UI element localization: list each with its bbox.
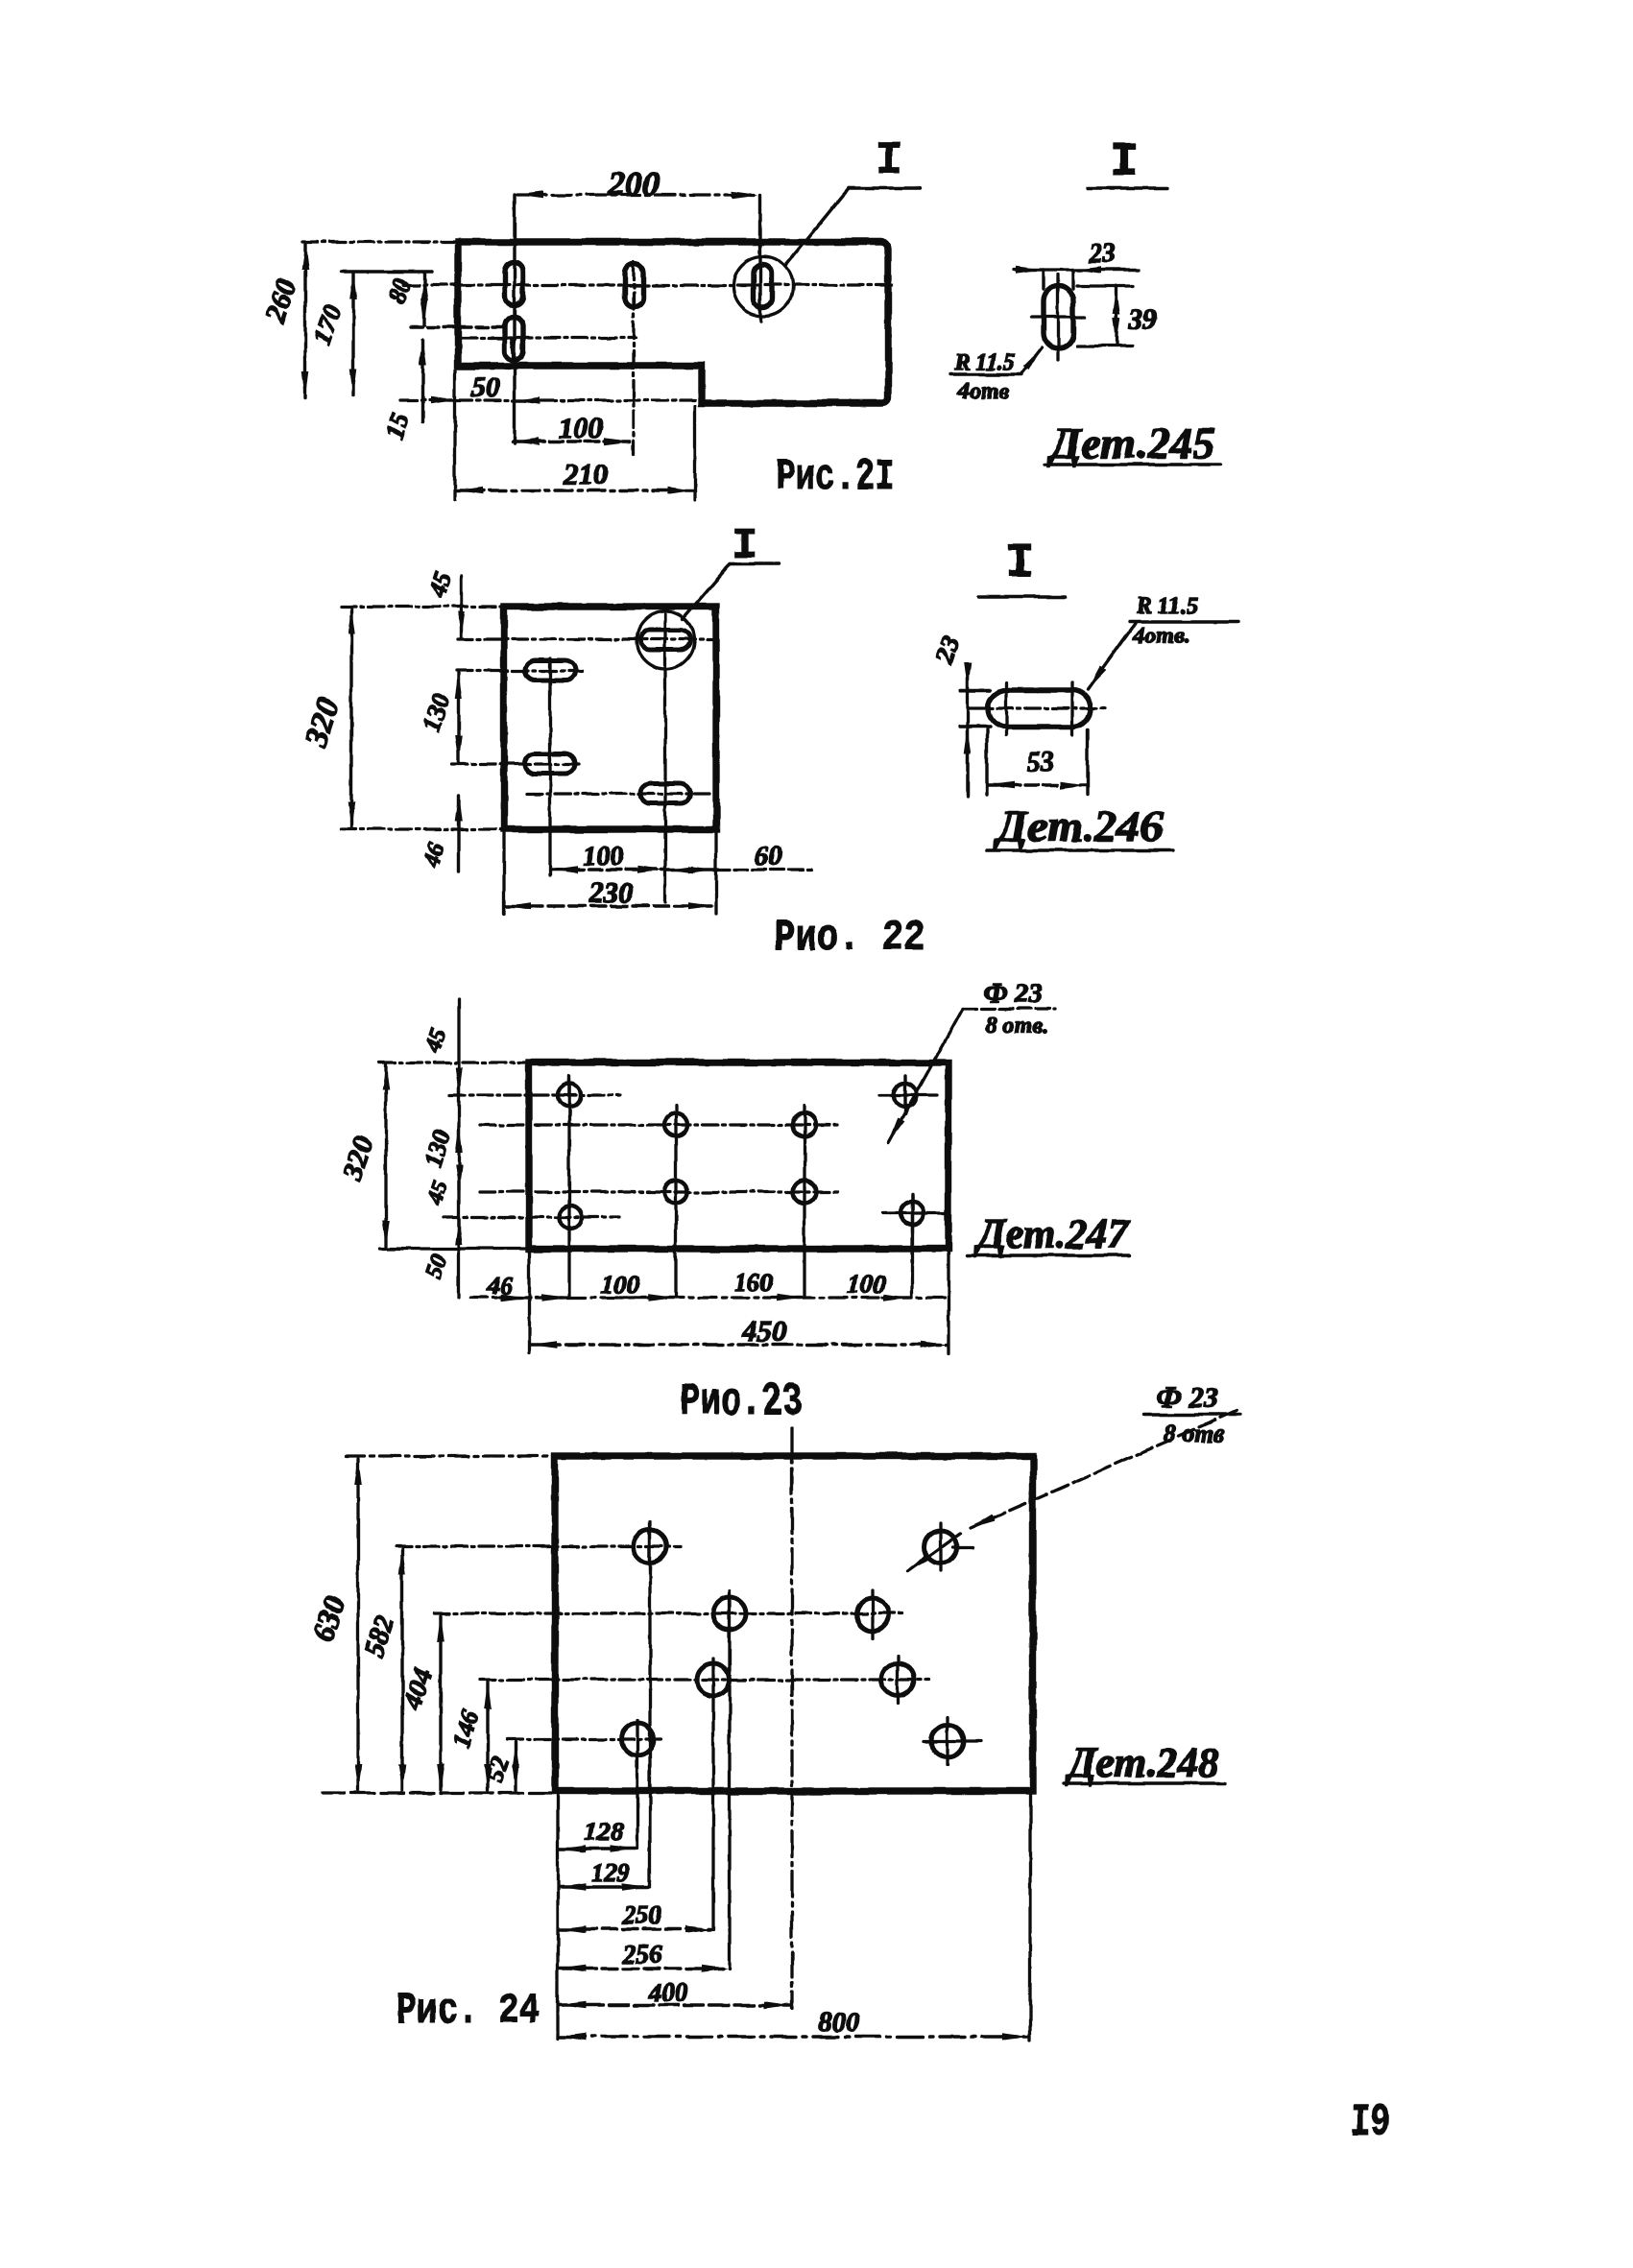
fig23 det underline <box>967 1253 1129 1256</box>
det245 ext 39 <box>1077 284 1133 287</box>
svg-text:160: 160 <box>734 1268 774 1297</box>
fig21 dim 80 <box>422 274 425 325</box>
svg-text:230: 230 <box>588 875 635 909</box>
svg-text:I: I <box>1005 537 1034 591</box>
svg-text:Дет.248: Дет.248 <box>1065 1739 1218 1786</box>
svg-text:45: 45 <box>420 1025 451 1056</box>
svg-text:256: 256 <box>622 1940 662 1969</box>
fig23 centerline cols <box>567 1080 570 1298</box>
svg-text:Рис. 24: Рис. 24 <box>396 1987 540 2036</box>
svg-text:I: I <box>732 522 757 570</box>
fig24 left baseline <box>322 1791 555 1794</box>
det245 dim 39 bracket <box>1115 288 1117 344</box>
fig21 centerline col2 <box>632 262 635 454</box>
fig22 dim 100 <box>552 868 663 871</box>
fig24 dim 250 <box>560 1927 711 1930</box>
svg-text:R 11.5: R 11.5 <box>1135 593 1198 619</box>
fig21 dim 170 <box>351 274 354 395</box>
fig21 plate outline <box>458 242 888 403</box>
det246 slot <box>988 690 1091 727</box>
svg-text:50: 50 <box>471 371 500 403</box>
det246 texts <box>929 537 1199 850</box>
det246 leader <box>1088 624 1135 689</box>
fig24 dim 146 <box>486 1683 489 1790</box>
fig24 ext top <box>346 1454 555 1457</box>
det246 underline <box>987 848 1173 851</box>
fig21 slot A3 circled <box>754 264 772 307</box>
fig23 ext top/bottom <box>379 1061 529 1063</box>
svg-text:4отв.: 4отв. <box>1132 624 1189 649</box>
fig24 dim 800 <box>560 2035 1028 2038</box>
fig24 F23 underline <box>1144 1413 1240 1416</box>
svg-text:129: 129 <box>591 1858 631 1887</box>
fig23 long left ext vertical <box>457 999 460 1299</box>
det245 dim 23 line <box>1014 268 1139 271</box>
svg-text:Рио.23: Рио.23 <box>680 1376 803 1428</box>
det245 leader R11.5 <box>1021 347 1042 373</box>
fig22 centerline row4 <box>527 792 712 795</box>
fig22 centerline row1 <box>457 637 712 640</box>
fig21 ext step down <box>693 406 696 500</box>
svg-text:45: 45 <box>422 1178 453 1208</box>
fig21 slot A4 lower <box>505 317 523 360</box>
fig23 dim 320 <box>384 1064 387 1247</box>
fig23 holes <box>558 1084 924 1229</box>
fig24 det underline <box>1064 1781 1225 1784</box>
fig23 dim 450 <box>531 1343 947 1346</box>
svg-text:210: 210 <box>564 459 608 490</box>
det245 underline <box>1045 463 1221 466</box>
fig22 leader to I <box>683 563 731 619</box>
svg-text:Ф 23: Ф 23 <box>984 978 1043 1009</box>
det246 slot centerlines <box>970 706 1108 709</box>
det245 slot side ext <box>1042 270 1045 289</box>
fig21 slot A2 <box>625 264 643 307</box>
fig24 hole vertical ticks <box>650 1522 948 1765</box>
svg-text:100: 100 <box>847 1270 886 1299</box>
det246 dim 23 <box>966 670 969 797</box>
fig22 dim 46 bottom <box>457 796 460 871</box>
fig24 dim 52 <box>514 1742 516 1790</box>
fig23 small arrows on ext line <box>457 1070 460 1093</box>
fig24 left ext vertical below <box>556 1793 559 2039</box>
svg-text:100: 100 <box>583 842 623 871</box>
svg-text:8 отв.: 8 отв. <box>986 1014 1048 1039</box>
fig24 right ext vertical below <box>1028 1793 1031 2041</box>
svg-text:8 отв: 8 отв <box>1164 1420 1226 1447</box>
fig22 slot B1 circled <box>640 630 690 650</box>
svg-text:Рис.2I: Рис.2I <box>776 453 895 502</box>
svg-text:4отв: 4отв <box>956 379 1009 404</box>
fig21 ext bottom <box>401 398 699 401</box>
svg-text:I9: I9 <box>1351 2098 1390 2149</box>
fig22 plate outline <box>504 607 716 829</box>
svg-text:23: 23 <box>929 633 965 668</box>
svg-text:Дет.246: Дет.246 <box>993 801 1163 850</box>
fig22 ext verticals bottom <box>502 831 505 914</box>
fig23 texts <box>336 978 1130 1428</box>
fig24 centerline rows <box>396 1544 681 1547</box>
svg-text:630: 630 <box>305 1592 351 1645</box>
fig21 dim 260 <box>303 244 306 398</box>
fig24 dim 582 <box>400 1549 403 1790</box>
fig22 ext top/bottom <box>341 605 504 608</box>
fig22 dim 45 top <box>459 576 462 637</box>
fig22 dim 130 <box>457 673 460 762</box>
det245 slot centerlines <box>1056 275 1059 361</box>
fig22 centerline colL <box>548 658 551 875</box>
fig24 main vertical centerline <box>790 1428 793 2008</box>
svg-text:45: 45 <box>424 569 457 601</box>
fig21 centerline col1 <box>513 195 516 443</box>
det246 ext 53 <box>985 729 988 795</box>
svg-text:Ф 23: Ф 23 <box>1156 1380 1218 1414</box>
fig21 ext y283 <box>342 270 432 273</box>
det246 R11.5 underline <box>1129 620 1238 623</box>
svg-text:50: 50 <box>420 1251 453 1282</box>
fig24 dim 404 <box>439 1616 442 1790</box>
fig23 ext for 450 <box>527 1251 530 1353</box>
svg-text:I: I <box>876 135 903 187</box>
fig24 dim 630 <box>356 1459 359 1790</box>
fig21 dim 50 arrows <box>434 398 456 401</box>
fig21 arrow on col1 to bottom edge <box>512 338 515 363</box>
svg-text:100: 100 <box>601 1270 640 1299</box>
det245 I mark <box>1088 186 1167 189</box>
fig21 centerline col3 <box>758 195 761 321</box>
det246 ext 23 <box>960 688 990 691</box>
svg-text:R 11.5: R 11.5 <box>954 350 1016 375</box>
svg-text:39: 39 <box>1127 303 1157 335</box>
svg-text:400: 400 <box>648 1978 688 2007</box>
fig22 dim 320 <box>349 609 352 827</box>
svg-text:80: 80 <box>382 275 417 308</box>
det246 I mark <box>979 595 1066 598</box>
svg-text:800: 800 <box>818 2007 860 2038</box>
svg-text:46: 46 <box>418 839 450 871</box>
fig21 ext top <box>302 240 458 243</box>
fig22 dim 230 <box>506 904 714 907</box>
svg-text:130: 130 <box>417 689 456 735</box>
svg-text:100: 100 <box>559 411 604 444</box>
svg-text:60: 60 <box>755 842 781 871</box>
det246 dim 53 <box>989 783 1086 786</box>
fig24 plate outline <box>555 1456 1033 1791</box>
fig24 leader F23 <box>970 1411 1237 1528</box>
fig21 dim 15 arrow <box>420 340 423 422</box>
svg-text:320: 320 <box>336 1134 380 1185</box>
fig21 dim 210 <box>457 489 693 491</box>
svg-text:130: 130 <box>419 1126 457 1170</box>
fig22 slot B3 <box>525 753 575 774</box>
fig22 texts <box>298 522 925 963</box>
fig24 dim 400 <box>560 2003 790 2006</box>
svg-text:320: 320 <box>298 694 347 752</box>
fig21 leader to I <box>785 188 849 266</box>
fig21 detail circle <box>733 256 793 316</box>
svg-text:170: 170 <box>307 301 347 347</box>
svg-text:53: 53 <box>1027 748 1054 777</box>
fig23 leader F23 <box>889 1009 963 1142</box>
svg-text:52: 52 <box>480 1754 515 1786</box>
det245 slot <box>1044 286 1073 348</box>
svg-text:46: 46 <box>487 1271 515 1300</box>
fig22 slot B2 <box>525 660 575 680</box>
fig24 centerline cols <box>648 1528 651 1887</box>
fig23 plate outline <box>529 1062 949 1249</box>
fig23 centerline rows <box>449 1093 619 1096</box>
fig24 dim 128 <box>560 1847 636 1850</box>
fig22 centerline row2 <box>457 669 582 672</box>
fig21 slot A1 <box>505 262 523 305</box>
fig23 bottom dim chain <box>470 1296 949 1299</box>
fig24 holes <box>621 1530 964 1757</box>
det245 texts <box>954 135 1215 467</box>
svg-text:15: 15 <box>380 411 415 443</box>
fig21 dim 100 <box>513 440 630 442</box>
svg-text:450: 450 <box>741 1314 787 1348</box>
fig21 ext left edge down <box>453 370 456 500</box>
svg-text:250: 250 <box>622 1900 662 1929</box>
fig24 texts <box>305 1380 1390 2149</box>
svg-text:Дет.247: Дет.247 <box>973 1210 1130 1257</box>
fig21 texts <box>259 135 902 502</box>
fig22 centerline colR <box>663 614 666 902</box>
svg-text:Дет.245: Дет.245 <box>1046 419 1215 467</box>
svg-text:146: 146 <box>446 1707 485 1751</box>
svg-text:Рио. 22: Рио. 22 <box>774 914 925 963</box>
fig21 dim 200 <box>517 193 757 196</box>
fig21 centerline row2 <box>461 336 636 339</box>
fig21 centerline row1 <box>403 283 893 286</box>
svg-text:260: 260 <box>259 275 303 327</box>
fig22 slot B4 <box>640 783 690 803</box>
fig22 dim 60 <box>667 868 714 871</box>
fig24 dim 256 <box>560 1967 728 1970</box>
fig22 centerline row3 <box>452 762 582 765</box>
svg-text:128: 128 <box>585 1817 624 1846</box>
svg-text:23: 23 <box>1088 239 1116 269</box>
fig23 hole cross ticks vertical <box>569 1076 912 1232</box>
svg-text:582: 582 <box>359 1612 401 1661</box>
fig22 detail circle <box>636 611 694 669</box>
svg-text:200: 200 <box>607 164 660 203</box>
svg-text:I: I <box>1110 135 1139 190</box>
fig21 ext y341 <box>411 325 507 328</box>
fig24 dim 129 <box>560 1885 648 1888</box>
